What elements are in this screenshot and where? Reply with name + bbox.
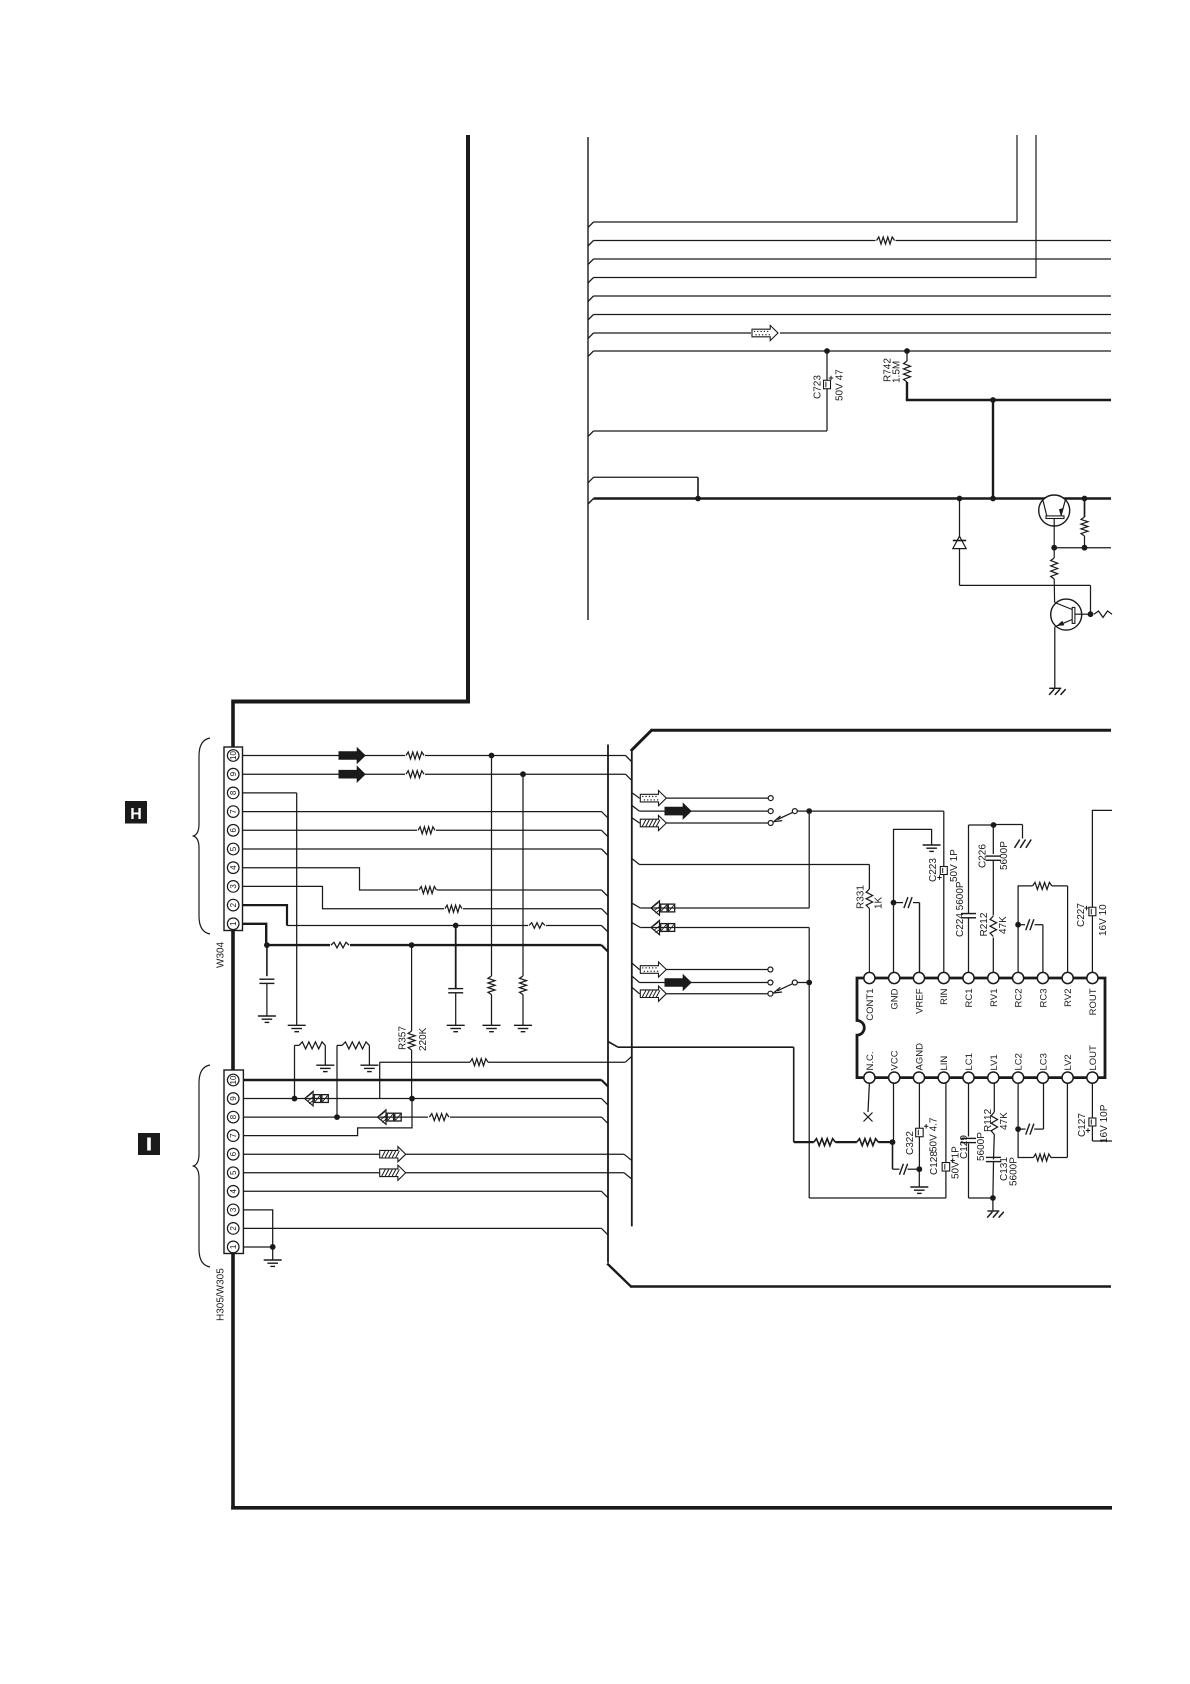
wire switch1 node to RIN line: [809, 810, 944, 812]
switch1 lever and contacts: [768, 809, 773, 814]
wire vertical stub top 1: [1016, 135, 1018, 223]
svg-text:LV2: LV2: [1063, 1054, 1074, 1070]
wire W304 row 2: [243, 905, 288, 925]
connector W304 pin 2: [227, 899, 239, 911]
wire block top edge thick: [651, 729, 1112, 732]
svg-text:7: 7: [229, 809, 238, 814]
svg-text:LV1: LV1: [989, 1054, 1000, 1070]
svg-text:16V 10P: 16V 10P: [1099, 1104, 1110, 1143]
connector H305/W305 box: [224, 1070, 243, 1254]
IC pin LV2: [1062, 1072, 1073, 1083]
wire thick vertical border left: [231, 700, 235, 748]
svg-text:7: 7: [229, 1133, 238, 1138]
wire W304 row 1 thick: [243, 924, 602, 945]
connector W304 pin 6: [227, 825, 239, 837]
connector H305 pin 7: [227, 1130, 239, 1142]
wire R742 to right rail: [906, 399, 1111, 401]
wire W304 row 6: [243, 829, 602, 831]
capacitor row1 corner to ground: [266, 945, 268, 976]
switch1 row solid: [632, 805, 640, 811]
resistor R357: [411, 945, 413, 1031]
wire thick vertical border left-top: [466, 135, 470, 704]
svg-text:5: 5: [229, 846, 238, 851]
IC pin ROUT: [1087, 972, 1098, 983]
switch2 row dotted: [632, 963, 640, 970]
wire thick mid rail: [588, 499, 594, 505]
connector H305 pin 5: [227, 1167, 239, 1179]
svg-text:1.5M: 1.5M: [892, 361, 903, 383]
IC pin LC1: [963, 1072, 974, 1083]
resistor row to bus B: [379, 1062, 381, 1098]
svg-text:RC1: RC1: [964, 989, 975, 1008]
bus A bottom chamfer: [607, 1264, 632, 1288]
wire VREF lead: [919, 903, 921, 973]
wire RC1 corner to node: [969, 824, 994, 826]
wire H305 row 2: [243, 1227, 601, 1229]
wire W304 row 5: [243, 848, 602, 850]
svg-text:5600P: 5600P: [976, 1132, 987, 1161]
svg-text:RV2: RV2: [1063, 989, 1074, 1007]
bus A vertical: [607, 745, 609, 1263]
wire diode to Q2 base node: [960, 584, 1091, 586]
wire H305 row 1 to ground: [243, 1246, 272, 1248]
svg-text:1: 1: [229, 921, 238, 926]
ground row9 riser: [316, 1064, 334, 1066]
capacitor series VCC node: [899, 1164, 903, 1175]
IC pin RC2: [1012, 972, 1023, 983]
svg-text:W304: W304: [216, 941, 227, 968]
wire arrow row A: [632, 903, 641, 908]
IC pin RIN: [938, 972, 949, 983]
ground row8 riser: [360, 1064, 378, 1066]
wire block bottom edge: [631, 1285, 1111, 1287]
connector W304 pin 9: [227, 768, 239, 780]
svg-text:VREF: VREF: [914, 988, 925, 1014]
IC pin LIN: [938, 1072, 949, 1083]
svg-text:3: 3: [229, 1207, 238, 1212]
connector H305 pin 4: [227, 1186, 239, 1198]
wire H305 row 4: [243, 1190, 601, 1192]
svg-text:4: 4: [229, 1189, 238, 1194]
wire H305 row 7 staircase: [243, 1099, 412, 1136]
connector W304 pin 7: [227, 806, 239, 818]
wire junction to ground: [992, 1198, 994, 1211]
resistor on bus line 2: [876, 236, 896, 246]
arrow row9: [339, 767, 365, 782]
connector W304 pin 10: [227, 750, 239, 762]
wire H305 row 8: [243, 1116, 601, 1118]
ground H305 pins 1-3: [264, 1259, 282, 1261]
svg-text:N.C.: N.C.: [865, 1052, 876, 1071]
switch1 row hatch: [632, 818, 640, 823]
svg-text:5600P: 5600P: [1009, 1157, 1020, 1186]
resistor stub right of Q2: [1094, 611, 1112, 617]
arrow signal on bus line 7: [751, 326, 780, 342]
bus B vertical: [631, 750, 633, 1226]
svg-text:8: 8: [229, 790, 238, 795]
wire Q2 emitter to ground: [1054, 627, 1056, 689]
wire H305 row 6: [243, 1153, 624, 1155]
svg-text:2: 2: [229, 902, 238, 907]
svg-text:9: 9: [229, 1096, 238, 1101]
wire bus B to R331: [632, 859, 640, 865]
resistor RC2-RV2 loop: [1018, 886, 1033, 925]
connector W304 pin 4: [227, 862, 239, 874]
resistor row4: [418, 886, 437, 895]
resistor-ground row8 riser: [336, 1045, 338, 1117]
wire thick bottom border: [231, 1506, 1112, 1510]
connector H305 pin 2: [227, 1223, 239, 1235]
ground C322 node: [910, 1186, 928, 1188]
resistor R742: [904, 348, 910, 354]
svg-text:1: 1: [229, 1244, 238, 1249]
svg-text:C227: C227: [1076, 903, 1087, 927]
resistor row10: [405, 751, 425, 760]
bus vertical line top: [587, 137, 589, 620]
svg-text:LOUT: LOUT: [1088, 1045, 1099, 1071]
arrow row6 hatch: [380, 1147, 406, 1162]
IC pin VCC: [889, 1072, 900, 1083]
svg-text:C223: C223: [928, 858, 939, 882]
svg-text:2: 2: [229, 1226, 238, 1231]
IC pin GND: [889, 972, 900, 983]
wire switch1 node drop: [808, 811, 810, 908]
wire W304 row 9: [243, 773, 626, 775]
svg-text:6: 6: [229, 1151, 238, 1156]
wire H305 row 5: [243, 1172, 624, 1174]
resistor row9: [405, 770, 425, 779]
svg-text:10: 10: [229, 1075, 238, 1084]
connector W304 pin 8: [227, 787, 239, 799]
ground W304 pin8: [288, 1024, 306, 1026]
resistor right of Q1: [1082, 496, 1088, 502]
ground row9 divider: [514, 1024, 532, 1026]
svg-text:CONT1: CONT1: [865, 989, 876, 1021]
capacitor C227: [1091, 902, 1093, 972]
svg-text:5: 5: [229, 1170, 238, 1175]
wire VCC to C322 node: [892, 1142, 894, 1169]
wire vertical stub top 2: [1035, 135, 1037, 278]
arrow left row9: [305, 1091, 314, 1106]
svg-text:C224 5600P: C224 5600P: [955, 881, 966, 937]
IC pin AGND: [913, 1072, 924, 1083]
wire H305 row 9: [243, 1098, 601, 1100]
wire W304 row 4 staircase: [243, 868, 602, 890]
resistor row6: [417, 826, 436, 835]
brace W304: [194, 738, 211, 934]
svg-text:LIN: LIN: [939, 1056, 950, 1071]
svg-text:GND: GND: [890, 988, 901, 1009]
resistor VCC rail 1: [794, 1141, 814, 1143]
capacitor row2 to ground: [453, 923, 459, 929]
svg-text:C128: C128: [929, 1151, 940, 1175]
arrow left00 row A: [651, 901, 660, 916]
resistor R212: [988, 916, 998, 938]
IC pin LC2: [1012, 1072, 1023, 1083]
capacitor C131: [993, 1135, 996, 1160]
inductor row2: [528, 921, 546, 930]
svg-text:8: 8: [229, 1114, 238, 1119]
resistor VCC rail 2: [835, 1141, 857, 1143]
IC pin RC1: [963, 972, 974, 983]
capacitor C223: [943, 866, 945, 972]
arrow left00 row B: [651, 920, 660, 935]
svg-text:9: 9: [229, 771, 238, 776]
wire switch2 node drop: [808, 983, 810, 1199]
wire VCC lead: [893, 1083, 895, 1142]
svg-text:50V 47: 50V 47: [835, 369, 846, 401]
wire W304 row 3 staircase: [243, 886, 602, 908]
svg-text:RIN: RIN: [939, 988, 950, 1005]
wire node row y548: [1051, 545, 1057, 551]
wire row B drop to switch2: [808, 928, 810, 983]
svg-text:50V 1P: 50V 1P: [949, 849, 960, 882]
resistor below Q1: [1053, 548, 1055, 558]
IC pin LV1: [988, 1072, 999, 1083]
wire H305 row 3 to ground: [243, 1210, 272, 1247]
wire to C128 bottom: [809, 1197, 946, 1199]
wire bus line 10 elbow: [588, 477, 594, 483]
IC pin RV2: [1062, 972, 1073, 983]
svg-text:R112: R112: [983, 1108, 994, 1132]
capacitor series LC2-LC3: [1018, 1128, 1025, 1130]
switch2 row solid: [632, 976, 640, 983]
resistor R331: [868, 865, 870, 890]
no-connect NC pin: [868, 1083, 869, 1112]
bus B top chamfer thick: [631, 730, 653, 752]
svg-text:RC2: RC2: [1014, 989, 1025, 1008]
wire node to ground: [918, 1169, 920, 1187]
transistor Q1: [1039, 495, 1070, 526]
capacitor C224: [968, 825, 970, 972]
capacitor series RC2-RC3: [1018, 924, 1025, 926]
connector W304 pin 1: [227, 918, 239, 930]
wire GND pin chain: [893, 903, 895, 973]
svg-text:R331: R331: [856, 885, 867, 909]
wire bus line 9 to C723: [588, 431, 594, 437]
IC pin RV1: [988, 972, 999, 983]
inductor row1: [330, 941, 350, 950]
label H black box: [125, 801, 147, 824]
ground row10 divider: [483, 1024, 501, 1026]
svg-text:10: 10: [229, 751, 238, 760]
svg-text:6: 6: [229, 828, 238, 833]
IC pin VREF: [913, 972, 924, 983]
resistor LC2-LV2 loop: [1018, 1129, 1033, 1157]
capacitor C127: [1091, 1083, 1093, 1141]
ground below C131: [987, 1210, 999, 1212]
wire RC2 node: [1017, 925, 1019, 973]
switch1 row dotted: [632, 793, 640, 799]
IC body: [857, 978, 1105, 1078]
capacitor C226: [992, 825, 994, 972]
wire node to ground right: [994, 824, 1023, 826]
IC pin CONT1: [864, 972, 875, 983]
svg-text:3: 3: [229, 884, 238, 889]
arrow left row8: [378, 1110, 387, 1125]
svg-text:H: H: [130, 806, 142, 823]
svg-text:C129: C129: [959, 1135, 970, 1159]
connector W304 pin 3: [227, 881, 239, 893]
IC pin LOUT: [1087, 1072, 1098, 1083]
svg-text:VCC: VCC: [890, 1050, 901, 1070]
wire bus A to VCC rail: [608, 1042, 618, 1048]
svg-text:4: 4: [229, 865, 238, 870]
capacitor C723: [826, 351, 828, 380]
svg-text:C226: C226: [978, 844, 989, 868]
svg-text:R357: R357: [398, 1026, 409, 1050]
connector W304 pin 5: [227, 843, 239, 855]
connector H305 pin 6: [227, 1148, 239, 1160]
connector W304 box: [224, 747, 243, 931]
svg-text:LC3: LC3: [1038, 1053, 1049, 1070]
svg-text:1K: 1K: [874, 896, 885, 909]
svg-text:H305/W305: H305/W305: [216, 1268, 227, 1321]
IC pin N.C.: [864, 1072, 875, 1083]
wire thick horizontal border: [232, 700, 471, 704]
transistor Q2: [1051, 599, 1082, 630]
svg-text:R212: R212: [979, 912, 990, 936]
wire arrow row B: [632, 923, 641, 928]
arrow row10: [339, 748, 365, 763]
svg-text:LC1: LC1: [964, 1053, 975, 1070]
switch2 row hatch: [632, 987, 640, 994]
svg-text:220K: 220K: [418, 1027, 429, 1051]
svg-text:RC3: RC3: [1038, 989, 1049, 1008]
arrow row5 hatch: [380, 1165, 406, 1180]
resistor-ground row9 riser: [294, 1045, 296, 1098]
wire W304 row 7: [243, 811, 602, 813]
svg-text:47K: 47K: [999, 1112, 1010, 1130]
connector H305 pin 10: [227, 1074, 239, 1086]
ground GND chain: [923, 844, 941, 846]
wire LC2 node: [1017, 1083, 1019, 1129]
svg-text:RV1: RV1: [989, 989, 1000, 1007]
connector H305 pin 8: [227, 1111, 239, 1123]
ground Q2: [1049, 687, 1061, 689]
svg-text:C723: C723: [813, 375, 824, 399]
svg-text:50V 4.7: 50V 4.7: [929, 1117, 940, 1152]
resistor divider row10 drop: [491, 756, 493, 977]
connector H305 pin 9: [227, 1093, 239, 1105]
svg-text:16V 10: 16V 10: [1098, 904, 1109, 936]
IC pin RC3: [1037, 972, 1048, 983]
capacitor C129: [968, 1083, 970, 1198]
IC pin LC3: [1037, 1072, 1048, 1083]
diode D1: [957, 496, 963, 502]
wire H305 row 10 thick: [243, 1079, 601, 1081]
svg-text:ROUT: ROUT: [1088, 988, 1099, 1015]
ground row2 cap: [447, 1024, 465, 1026]
resistor divider row9 drop: [522, 774, 524, 976]
svg-text:47K: 47K: [998, 916, 1009, 934]
wire W304 row 8 to ground: [243, 792, 297, 794]
resistor row8: [428, 1113, 450, 1122]
switch2 lever and contacts: [768, 980, 773, 985]
svg-text:AGND: AGND: [914, 1043, 925, 1071]
wire vertical thick drop: [992, 400, 994, 499]
wire W304 row 10: [243, 755, 626, 757]
resistor R112: [993, 1083, 995, 1112]
capacitor C322: [918, 1083, 920, 1169]
capacitor series GND-VREF: [894, 902, 904, 904]
capacitor C128: [945, 1083, 947, 1198]
svg-text:LC2: LC2: [1014, 1053, 1025, 1070]
brace H305: [194, 1065, 211, 1267]
svg-text:C127: C127: [1077, 1113, 1088, 1137]
connector H305 pin 1: [227, 1241, 239, 1253]
ground RC1 node: [1015, 840, 1020, 848]
svg-text:C322: C322: [905, 1131, 916, 1155]
label I black box: [138, 1133, 160, 1155]
ground row1 cap: [258, 1015, 276, 1017]
connector H305 pin 3: [227, 1204, 239, 1216]
svg-text:5600P: 5600P: [999, 841, 1010, 870]
resistor row3: [444, 904, 463, 913]
wire bus lines top-right: [588, 222, 594, 228]
